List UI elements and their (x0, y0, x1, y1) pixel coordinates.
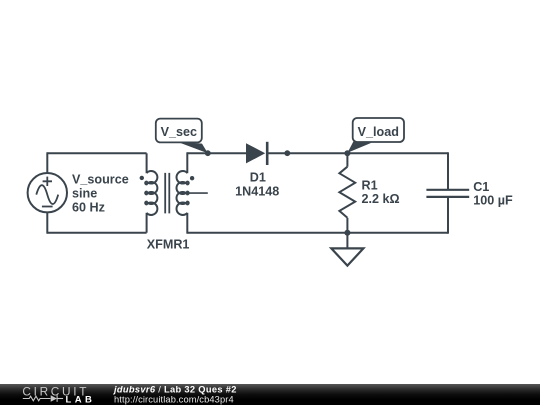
svg-text:sine: sine (72, 187, 97, 201)
wire bottom-left rail (47, 232, 146, 234)
wire primary vertical bottom (146, 213, 148, 233)
node dot V_load (344, 150, 350, 156)
wire bottom-right rail (187, 232, 448, 234)
secondary phase dot (190, 176, 194, 180)
label D1 value (235, 170, 279, 198)
voltage source V_source (28, 173, 67, 212)
node V_sec flag (156, 119, 208, 154)
label R1 value (362, 178, 400, 206)
svg-text:60 Hz: 60 Hz (72, 201, 105, 215)
label V_source value (72, 172, 129, 214)
svg-text:XFMR1: XFMR1 (147, 238, 190, 252)
wire top-left rail (47, 152, 146, 154)
wire right vertical top (447, 152, 449, 189)
svg-text:R1: R1 (362, 178, 378, 192)
wire primary vertical top (146, 153, 148, 173)
wire secondary vertical bottom (186, 213, 188, 234)
diode D1 (246, 142, 267, 165)
footer bar (0, 384, 540, 405)
transformer core (165, 173, 169, 214)
svg-text:1N4148: 1N4148 (235, 185, 279, 199)
node dot V_sec (205, 150, 211, 156)
svg-text:D1: D1 (250, 170, 266, 184)
wire right vertical bottom (447, 197, 449, 234)
label C1 value (473, 180, 513, 207)
capacitor C1 (426, 190, 469, 197)
svg-text:V_sec: V_sec (161, 125, 197, 139)
resistor R1 (339, 153, 355, 233)
node V_load flag (348, 118, 405, 153)
secondary center tap stub (187, 192, 208, 194)
node dot ground junction (344, 230, 350, 236)
wire secondary to diode (187, 152, 246, 154)
svg-text:C1: C1 (473, 180, 489, 194)
svg-text:V_source: V_source (72, 172, 129, 186)
footer logo circuit glyph (23, 395, 63, 402)
wire diode cathode to right (268, 152, 448, 154)
svg-text:jdubsvr6 / Lab 32 Ques #2: jdubsvr6 / Lab 32 Ques #2 (113, 385, 237, 395)
node dot after diode (284, 150, 290, 156)
svg-text:V_load: V_load (358, 125, 399, 139)
secondary coil (177, 171, 189, 215)
ground (331, 233, 363, 266)
svg-text:http://circuitlab.com/cb43pr4: http://circuitlab.com/cb43pr4 (114, 394, 234, 404)
transformer XFMR1 (140, 152, 208, 233)
wire left vertical top (46, 152, 48, 174)
wire secondary vertical top (186, 152, 188, 173)
primary coil (145, 171, 157, 215)
primary phase dot (140, 176, 144, 180)
svg-text:2.2 kΩ: 2.2 kΩ (362, 192, 400, 206)
svg-text:100 µF: 100 µF (473, 193, 513, 207)
wire left vertical bottom (46, 212, 48, 234)
svg-text:LAB: LAB (66, 394, 96, 405)
